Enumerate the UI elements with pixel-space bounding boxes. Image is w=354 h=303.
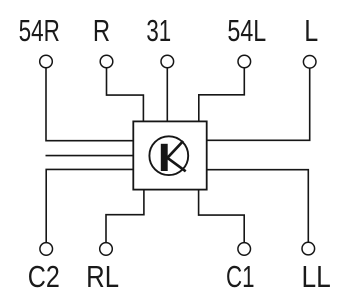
relay box K1 [133, 121, 206, 189]
wire RL to relay box bottom pin [106, 189, 144, 242]
terminal C2 [40, 243, 53, 256]
svg-text:54R: 54R [19, 12, 60, 47]
wire 54R to relay box left pin [46, 68, 134, 141]
wire C1 to relay box bottom pin [199, 189, 245, 242]
svg-text:31: 31 [146, 14, 171, 48]
svg-text:RL: RL [86, 260, 119, 295]
terminal RL [100, 243, 113, 256]
svg-text:R: R [93, 13, 110, 48]
svg-text:L: L [304, 13, 318, 48]
wire LL to relay box right pin [206, 170, 308, 243]
terminal C1 [238, 243, 251, 256]
Kostal logo K vertical bar [161, 144, 168, 171]
svg-text:54L: 54L [227, 13, 266, 48]
svg-text:C1: C1 [226, 260, 255, 294]
wire C2 to relay box left pin [46, 169, 134, 242]
svg-text:C2: C2 [28, 259, 60, 294]
terminal R [100, 55, 113, 68]
svg-text:LL: LL [301, 260, 330, 294]
Kostal logo K lower leg [167, 157, 186, 171]
terminal 31 [161, 55, 174, 68]
terminal L [303, 56, 316, 69]
wire R to relay box top pin [107, 68, 144, 122]
terminal LL [302, 242, 315, 255]
wire L to relay box right pin [206, 68, 310, 140]
wire stub middle-left pin [46, 155, 134, 157]
terminal 54L [238, 55, 251, 68]
wire 54L to relay box top pin [199, 68, 245, 122]
wire 31 to relay box top pin [166, 68, 168, 122]
terminal 54R [40, 55, 53, 68]
Kostal logo K upper leg [167, 141, 184, 159]
Kostal logo circle [149, 136, 188, 175]
